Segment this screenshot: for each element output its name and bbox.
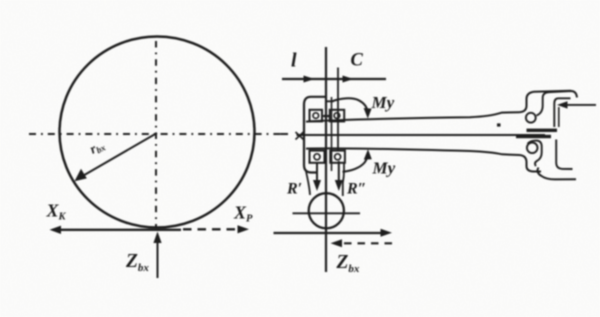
svg-text:My: My [371, 93, 395, 112]
svg-text:l: l [291, 50, 297, 72]
svg-text:R′: R′ [286, 181, 302, 198]
svg-text:My: My [372, 159, 396, 178]
svg-text:C: C [351, 51, 364, 71]
svg-text:R″: R″ [346, 181, 367, 198]
